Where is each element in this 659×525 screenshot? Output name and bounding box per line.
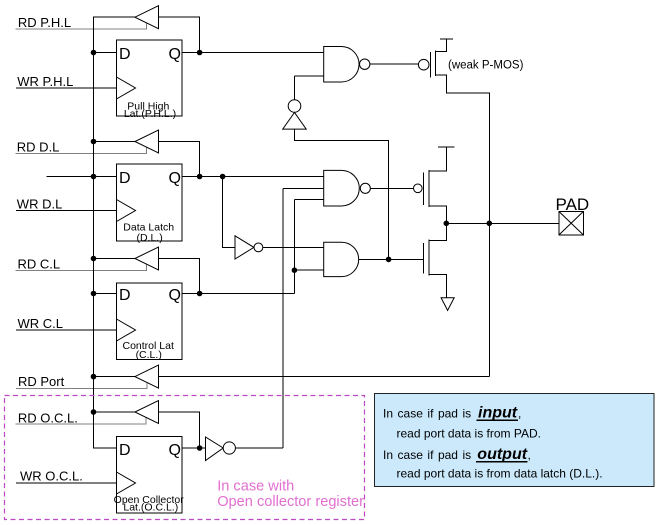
svg-text:(C.L.): (C.L.) [136, 349, 162, 361]
svg-text:Q: Q [169, 442, 181, 459]
svg-text:D: D [119, 287, 131, 304]
svg-text:RD D.L: RD D.L [17, 140, 60, 155]
svg-text:Lat.(P.H.L.): Lat.(P.H.L.) [124, 108, 176, 120]
svg-text:Q: Q [169, 46, 181, 63]
svg-text:D: D [119, 442, 131, 459]
svg-text:read port data is from data la: read port data is from data latch (D.L.)… [397, 467, 603, 481]
svg-text:input: input [478, 404, 518, 421]
svg-text:In case with: In case with [217, 478, 294, 494]
svg-text:WR D.L: WR D.L [17, 197, 63, 212]
svg-text:WR O.C.L.: WR O.C.L. [20, 469, 83, 484]
svg-text:Lat.(O.C.L.): Lat.(O.C.L.) [123, 502, 178, 514]
svg-text:,: , [528, 448, 531, 462]
svg-text:RD Port: RD Port [18, 374, 65, 389]
svg-text:Q: Q [169, 170, 181, 187]
svg-text:(weak P-MOS): (weak P-MOS) [448, 60, 524, 72]
svg-text:In case if pad is: In case if pad is [383, 448, 471, 462]
svg-text:Q: Q [169, 287, 181, 304]
svg-text:read port data is from PAD.: read port data is from PAD. [397, 427, 542, 441]
svg-text:RD O.C.L.: RD O.C.L. [18, 410, 78, 425]
svg-text:WR C.L: WR C.L [18, 316, 64, 331]
svg-text:In case if pad is: In case if pad is [383, 406, 471, 420]
svg-text:(D.L.): (D.L.) [136, 232, 162, 244]
svg-text:RD C.L: RD C.L [18, 256, 61, 271]
svg-text:PAD: PAD [556, 195, 590, 214]
svg-text:D: D [119, 170, 131, 187]
svg-text:WR P.H.L: WR P.H.L [17, 74, 73, 89]
svg-text:D: D [119, 46, 131, 63]
svg-text:output: output [477, 446, 527, 463]
svg-text:Open collector register: Open collector register [217, 494, 364, 510]
svg-text:,: , [518, 406, 521, 420]
svg-text:RD P.H.L: RD P.H.L [18, 15, 71, 30]
